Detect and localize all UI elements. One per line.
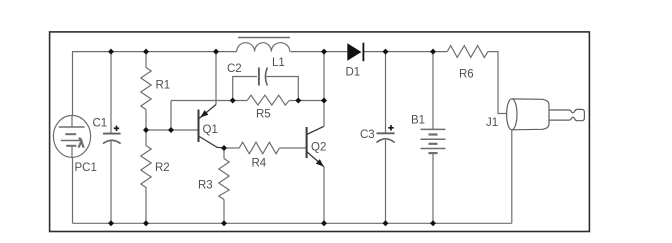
wire base row to Q1 [146, 129, 199, 131]
capacitor C1 [103, 134, 121, 144]
node bottom rail R3 [221, 220, 227, 226]
svg-text:L1: L1 [272, 57, 285, 69]
capacitor C3 plus sign [388, 125, 393, 130]
wire R5 right lead [289, 100, 324, 102]
node bottom rail C1 [108, 220, 114, 226]
svg-text:R2: R2 [155, 162, 170, 174]
svg-text:λ: λ [78, 138, 84, 150]
resistor R5 [247, 95, 289, 105]
wire C3 column top [385, 52, 387, 133]
wire R1 bottom lead [145, 110, 147, 131]
transistor Q1 [199, 105, 225, 149]
svg-text:PC1: PC1 [75, 162, 97, 174]
svg-text:R1: R1 [156, 79, 171, 91]
svg-text:C3: C3 [360, 129, 375, 141]
node R5 row left [230, 98, 236, 104]
node top rail Q1 emitter [213, 49, 219, 55]
capacitor C1 plus sign [114, 126, 119, 131]
resistor R2 [141, 146, 151, 191]
svg-text:R4: R4 [252, 157, 267, 169]
svg-text:R5: R5 [256, 109, 271, 121]
wire R5 row left [171, 100, 247, 102]
wire bottom rail [73, 222, 512, 224]
node base row link [168, 127, 174, 133]
wire R4 left lead [224, 147, 239, 149]
resistor R1 [141, 68, 151, 110]
node bottom rail C3 [383, 220, 389, 226]
wire Q2 emitter down [323, 167, 325, 224]
wire C2 branch right [266, 77, 298, 101]
node base row R1 R2 [143, 127, 149, 133]
diode D1 [347, 43, 363, 62]
node top rail C1 [108, 49, 114, 55]
node Q1 collector R3 R4 [221, 145, 227, 151]
wire R2 bottom lead [145, 191, 147, 224]
wire top rail to J1 corner [488, 52, 507, 114]
node top rail B1 [430, 49, 436, 55]
svg-text:J1: J1 [486, 117, 498, 129]
svg-text:Q1: Q1 [203, 124, 218, 136]
resistor R3 [219, 159, 229, 200]
wire R4 right lead [279, 147, 306, 149]
solar cell PC1 [53, 115, 90, 157]
node bottom rail R2 [143, 220, 149, 226]
wire C1 column [110, 52, 112, 133]
svg-text:Q2: Q2 [311, 141, 326, 153]
wire top rail right segment [363, 51, 447, 53]
wire R3 bottom lead [223, 200, 225, 224]
svg-text:R3: R3 [198, 180, 213, 192]
resistor R6 [447, 46, 488, 58]
battery B1 [421, 52, 446, 224]
wire node link up to R5 row [170, 101, 172, 131]
inductor L1 core line [238, 37, 290, 39]
wire left column bottom [72, 158, 74, 224]
capacitor C2 [259, 68, 267, 86]
inductor L1 [237, 43, 290, 52]
wire C3 column bottom [385, 140, 387, 223]
wire C1 column bottom [110, 141, 112, 223]
node top rail Q2 collector [321, 49, 327, 55]
svg-text:C1: C1 [93, 117, 108, 129]
border frame [50, 32, 590, 232]
svg-text:D1: D1 [346, 67, 361, 79]
wire top rail middle segment [290, 51, 347, 53]
svg-text:R6: R6 [459, 68, 474, 80]
node top rail C3 [383, 49, 389, 55]
phone plug J1 [507, 99, 585, 130]
node bottom rail B1 [430, 220, 436, 226]
svg-text:B1: B1 [411, 115, 425, 127]
node R5 row right [295, 98, 301, 104]
wire Q2 collector up [323, 52, 325, 127]
node bottom rail Q2 emitter [321, 220, 327, 226]
resistor R4 [239, 142, 279, 154]
wire J1 down [511, 130, 513, 224]
wire R3 top lead [223, 148, 225, 159]
wire Q1 emitter to top rail [215, 52, 217, 105]
wire C2 branch left [233, 77, 257, 101]
wire R2 top lead [145, 130, 147, 146]
transistor Q2 [307, 126, 324, 167]
wire top rail left segment [73, 52, 237, 116]
node top rail R1 [143, 49, 149, 55]
capacitor C3 [377, 133, 395, 142]
node R5 row Q2 [321, 98, 327, 104]
svg-text:C2: C2 [227, 63, 242, 75]
wire R1 top lead [145, 52, 147, 68]
